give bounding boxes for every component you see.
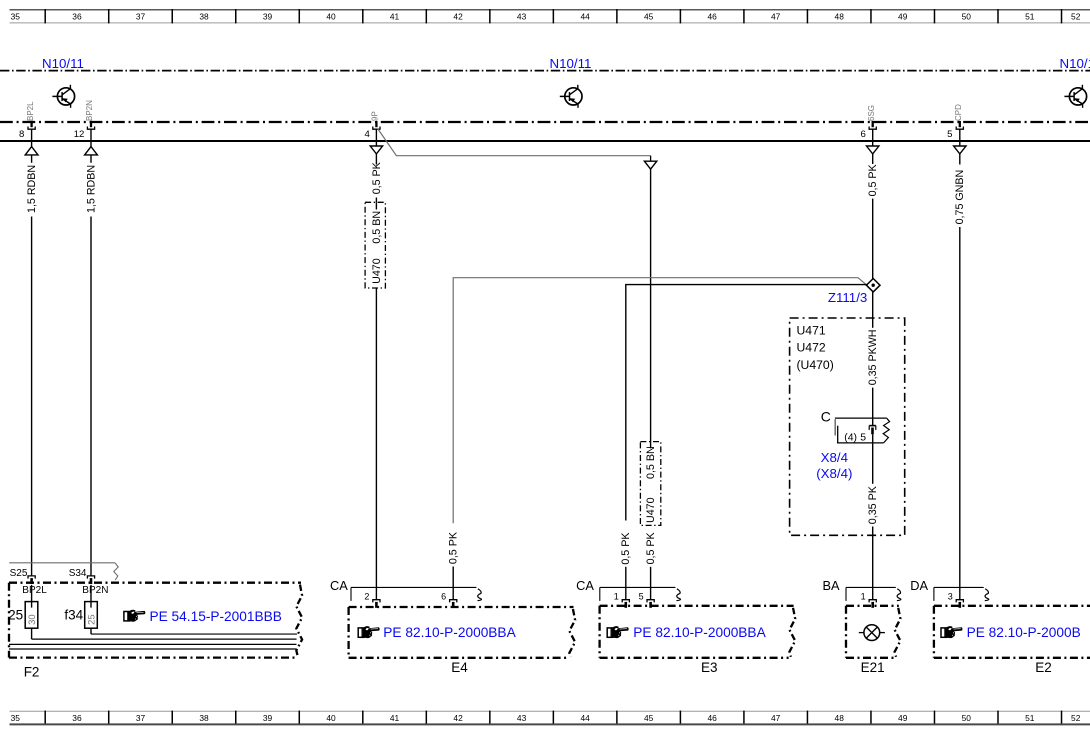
svg-text:50: 50 bbox=[962, 713, 972, 723]
svg-text:BP2L: BP2L bbox=[26, 101, 35, 121]
svg-text:51: 51 bbox=[1025, 713, 1035, 723]
svg-text:30: 30 bbox=[27, 614, 38, 625]
svg-text:42: 42 bbox=[453, 713, 463, 723]
svg-text:PE 82.10-P-2000BBA: PE 82.10-P-2000BBA bbox=[633, 625, 766, 640]
svg-text:48: 48 bbox=[835, 713, 845, 723]
svg-text:PE 82.10-P-2000BBA: PE 82.10-P-2000BBA bbox=[383, 625, 516, 640]
label N10/11 (middle) bbox=[550, 56, 592, 71]
svg-text:U471: U471 bbox=[797, 323, 826, 337]
svg-text:5: 5 bbox=[639, 592, 644, 602]
svg-text:44: 44 bbox=[580, 12, 590, 22]
svg-text:42: 42 bbox=[453, 12, 463, 22]
svg-text:6: 6 bbox=[861, 129, 866, 140]
branch wire from node Z111/3 to E3 pin 1 bbox=[620, 285, 867, 600]
see-reference hand icon E2 bbox=[941, 626, 962, 638]
svg-text:48: 48 bbox=[835, 12, 845, 22]
component name F2 bbox=[24, 665, 40, 680]
svg-text:41: 41 bbox=[390, 12, 400, 22]
wire 0,35 PKWH from Z111/3 to connector X8/4 bbox=[867, 292, 879, 426]
branch wire (gray) from node Z111/3 to E4 pin 6 bbox=[453, 278, 866, 524]
svg-text:50: 50 bbox=[962, 12, 972, 22]
svg-text:U472: U472 bbox=[797, 341, 826, 355]
connector CA of E3 with pins 1 and 5 bbox=[576, 578, 680, 608]
svg-text:44: 44 bbox=[580, 713, 590, 723]
bottom zone ruler bbox=[10, 711, 1090, 725]
svg-text:BP2N: BP2N bbox=[85, 100, 94, 121]
svg-text:U470: U470 bbox=[371, 258, 383, 284]
connector DA of E2 with pin 3 bbox=[910, 578, 988, 608]
svg-text:(4): (4) bbox=[844, 432, 857, 443]
fuse box F2 outline bbox=[9, 583, 302, 658]
svg-text:F2: F2 bbox=[24, 665, 40, 680]
svg-text:39: 39 bbox=[263, 713, 273, 723]
svg-text:0,5 PK: 0,5 PK bbox=[448, 531, 460, 564]
terminal S25 at F2 bbox=[10, 568, 36, 584]
wire continuation to E4 pin 2 bbox=[375, 288, 377, 600]
reference label PE 54.15-P-2001BBB bbox=[150, 609, 282, 624]
connector X8/4 socket C bbox=[821, 409, 890, 444]
F2 internal feed rails bbox=[9, 634, 297, 649]
harness designation box U470 / 0,5 BN (upper) bbox=[365, 202, 385, 288]
svg-text:38: 38 bbox=[199, 12, 209, 22]
svg-text:E21: E21 bbox=[861, 660, 885, 675]
svg-text:6SG: 6SG bbox=[867, 105, 876, 121]
component name E2 bbox=[1035, 660, 1052, 675]
wire 0,75 GNBN from pin 5 to E2 pin 3 bbox=[954, 129, 967, 600]
svg-text:5: 5 bbox=[860, 432, 866, 443]
svg-text:X8/4: X8/4 bbox=[821, 450, 848, 465]
svg-text:S25: S25 bbox=[10, 568, 28, 579]
wire label 0,5 PK above E4 pin 6 bbox=[448, 531, 460, 600]
svg-text:E2: E2 bbox=[1035, 660, 1052, 675]
pin 8 connector BP2L of N10/11 bbox=[19, 101, 35, 140]
svg-text:CA: CA bbox=[330, 578, 348, 593]
svg-text:0,5 PK: 0,5 PK bbox=[371, 161, 383, 194]
svg-text:0,5 PK: 0,5 PK bbox=[620, 532, 632, 565]
svg-text:U470: U470 bbox=[645, 497, 657, 523]
control unit N10/11 boundary dash-dot line bbox=[0, 70, 1090, 72]
transistor symbol left (electronics marker) bbox=[52, 85, 74, 108]
svg-text:N10/11: N10/11 bbox=[1060, 56, 1090, 71]
svg-text:49: 49 bbox=[898, 713, 908, 723]
svg-text:43: 43 bbox=[517, 12, 527, 22]
connector CA of E4 with pins 2 and 6 bbox=[330, 578, 481, 608]
terminal S34 at F2 bbox=[69, 568, 95, 584]
svg-text:PE 54.15-P-2001BBB: PE 54.15-P-2001BBB bbox=[150, 609, 282, 624]
svg-text:46: 46 bbox=[707, 713, 717, 723]
svg-text:36: 36 bbox=[72, 713, 82, 723]
svg-text:BA: BA bbox=[823, 578, 841, 593]
reference label PE 82.10-P-2000BBA (E4) bbox=[383, 625, 516, 640]
component box E4 bbox=[349, 607, 575, 658]
svg-text:5: 5 bbox=[947, 129, 952, 140]
component name E4 bbox=[451, 660, 468, 675]
svg-text:4: 4 bbox=[364, 129, 370, 140]
reference label PE 82.10-P-2000BBA (E2, clipped) bbox=[967, 625, 1081, 640]
see-reference hand icon F2 bbox=[124, 610, 145, 622]
fuse box F2 pre-fuse rail (gray) bbox=[9, 563, 118, 580]
svg-text:1: 1 bbox=[614, 592, 619, 602]
terminal label BP2N inside F2 bbox=[82, 585, 108, 596]
svg-text:25: 25 bbox=[8, 608, 23, 623]
lamp symbol in E21 bbox=[859, 625, 885, 641]
top zone ruler bbox=[10, 9, 1090, 23]
svg-text:(X8/4): (X8/4) bbox=[816, 466, 852, 481]
svg-text:0,5 PK: 0,5 PK bbox=[867, 163, 879, 196]
svg-text:E4: E4 bbox=[451, 660, 468, 675]
svg-text:DA: DA bbox=[910, 578, 928, 593]
svg-text:N10/11: N10/11 bbox=[42, 56, 84, 71]
svg-text:N10/11: N10/11 bbox=[550, 56, 592, 71]
fuse f34 (25 A) in F2 bbox=[64, 585, 97, 634]
svg-text:43: 43 bbox=[517, 713, 527, 723]
svg-text:52: 52 bbox=[1071, 713, 1081, 723]
svg-text:45: 45 bbox=[644, 12, 654, 22]
wire 0,5 PK branch down to E3 pin 5 bbox=[644, 156, 656, 442]
svg-text:40: 40 bbox=[326, 713, 336, 723]
svg-text:E3: E3 bbox=[701, 660, 718, 675]
svg-text:1,5 RDBN: 1,5 RDBN bbox=[85, 165, 97, 213]
pin 12 connector BP2N of N10/11 bbox=[74, 100, 95, 140]
svg-text:25: 25 bbox=[87, 614, 98, 625]
wire 1,5 RDBN from pin 12 to fuse S34 bbox=[85, 129, 98, 576]
pin 5 connector CPD of N10/11 bbox=[947, 104, 963, 140]
svg-text:1,5 RDBN: 1,5 RDBN bbox=[26, 165, 38, 213]
N10/11 internal connector rail (heavy dash-dot) bbox=[0, 121, 1090, 123]
svg-text:C: C bbox=[821, 409, 831, 425]
svg-text:0,5 BN: 0,5 BN bbox=[645, 446, 657, 479]
label X8/4 bbox=[816, 450, 852, 481]
svg-text:52: 52 bbox=[1071, 12, 1081, 22]
svg-text:39: 39 bbox=[263, 12, 273, 22]
svg-text:(U470): (U470) bbox=[797, 358, 834, 372]
svg-text:0,35 PK: 0,35 PK bbox=[867, 485, 879, 524]
svg-text:35: 35 bbox=[11, 713, 21, 723]
branch wire (gray) from pin 4 to E3 pin 5 arrow bbox=[378, 129, 651, 156]
svg-text:0,75 GNBN: 0,75 GNBN bbox=[954, 170, 966, 225]
svg-text:1: 1 bbox=[861, 592, 866, 602]
component name E3 bbox=[701, 660, 718, 675]
wire label 0,5 PK above E3 pin 5 bbox=[645, 531, 657, 599]
component box E3 bbox=[600, 606, 796, 658]
svg-text:12: 12 bbox=[74, 129, 85, 140]
svg-text:47: 47 bbox=[771, 713, 781, 723]
pin 6 connector 6SG of N10/11 bbox=[861, 105, 877, 140]
svg-text:PE 82.10-P-2000B: PE 82.10-P-2000B bbox=[967, 625, 1081, 640]
svg-text:8: 8 bbox=[19, 129, 24, 140]
node Z111/3 (solder splice diamond) bbox=[828, 279, 880, 305]
svg-text:0,5 BN: 0,5 BN bbox=[371, 211, 383, 244]
svg-text:49: 49 bbox=[898, 12, 908, 22]
svg-text:9P: 9P bbox=[371, 111, 380, 121]
svg-text:3: 3 bbox=[948, 592, 953, 602]
svg-text:0,35 PKWH: 0,35 PKWH bbox=[867, 329, 879, 385]
terminal label BP2L inside F2 bbox=[22, 585, 47, 596]
svg-text:0,5 PK: 0,5 PK bbox=[645, 531, 657, 564]
svg-text:38: 38 bbox=[199, 713, 209, 723]
pin 4 connector 9P of N10/11 bbox=[364, 111, 380, 140]
svg-text:CPD: CPD bbox=[954, 104, 963, 121]
svg-text:47: 47 bbox=[771, 12, 781, 22]
component box E21 bbox=[846, 606, 900, 658]
see-reference hand icon E3 bbox=[607, 626, 628, 638]
svg-text:BP2L: BP2L bbox=[22, 585, 47, 596]
option box U471 / U472 / (U470) bbox=[790, 318, 905, 535]
reference label PE 82.10-P-2000BBA (E3) bbox=[633, 625, 766, 640]
fuse 25 (30 A) in F2 bbox=[8, 585, 38, 639]
see-reference hand icon E4 bbox=[358, 626, 379, 638]
component name E21 bbox=[861, 660, 885, 675]
svg-text:40: 40 bbox=[326, 12, 336, 22]
svg-text:6: 6 bbox=[441, 592, 446, 602]
svg-text:CA: CA bbox=[576, 578, 594, 593]
svg-text:37: 37 bbox=[136, 713, 146, 723]
svg-text:35: 35 bbox=[11, 12, 21, 22]
svg-text:36: 36 bbox=[72, 12, 82, 22]
transistor symbol middle (electronics marker) bbox=[560, 85, 582, 108]
svg-text:2: 2 bbox=[364, 592, 369, 602]
svg-text:51: 51 bbox=[1025, 12, 1035, 22]
wire 0,5 PK from pin 6 to node Z111/3 bbox=[867, 129, 880, 279]
component box E2 (clipped at page edge) bbox=[934, 606, 1090, 658]
wire 0,5 PK from pin 4 to E4 pin 2 bbox=[370, 129, 383, 202]
svg-text:S34: S34 bbox=[69, 568, 87, 579]
svg-text:37: 37 bbox=[136, 12, 146, 22]
transistor symbol right (electronics marker) bbox=[1064, 85, 1086, 108]
label N10/11 (left) bbox=[42, 56, 84, 71]
svg-text:46: 46 bbox=[707, 12, 717, 22]
wire 1,5 RDBN from pin 8 to fuse S25 bbox=[25, 129, 38, 576]
svg-text:BP2N: BP2N bbox=[82, 585, 108, 596]
label N10/11 (right, clipped) bbox=[1060, 56, 1090, 71]
svg-text:45: 45 bbox=[644, 713, 654, 723]
internal bus wire (solid) bbox=[0, 140, 1090, 142]
harness designation box U470 / 0,5 BN (lower) bbox=[640, 442, 660, 526]
connector BA of E21 with pin 1 bbox=[823, 578, 901, 608]
svg-text:41: 41 bbox=[390, 713, 400, 723]
wire 0,35 PK from X8/4 to E21 pin 1 bbox=[867, 434, 879, 599]
svg-text:f34: f34 bbox=[64, 608, 83, 623]
svg-text:Z111/3: Z111/3 bbox=[828, 290, 867, 305]
